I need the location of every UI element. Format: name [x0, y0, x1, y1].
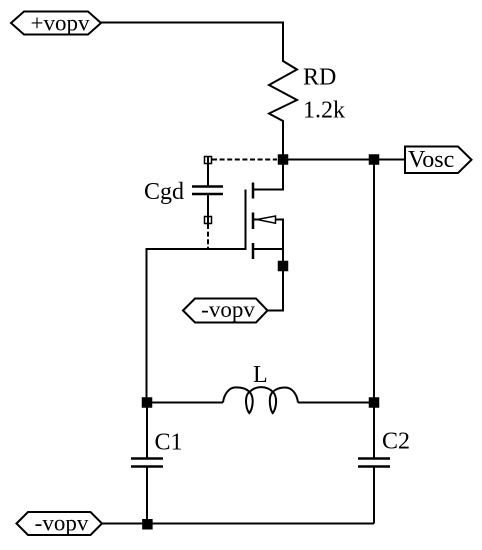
svg-text:-vopv: -vopv — [201, 297, 255, 322]
svg-text:Vosc: Vosc — [408, 147, 454, 173]
svg-text:Cgd: Cgd — [144, 179, 184, 205]
svg-text:C1: C1 — [155, 430, 183, 456]
svg-text:L: L — [253, 362, 268, 388]
svg-text:-vopv: -vopv — [35, 510, 89, 535]
svg-text:C2: C2 — [382, 429, 410, 455]
svg-text:RD: RD — [303, 65, 336, 91]
svg-text:+vopv: +vopv — [31, 10, 90, 35]
svg-text:1.2k: 1.2k — [303, 98, 345, 124]
